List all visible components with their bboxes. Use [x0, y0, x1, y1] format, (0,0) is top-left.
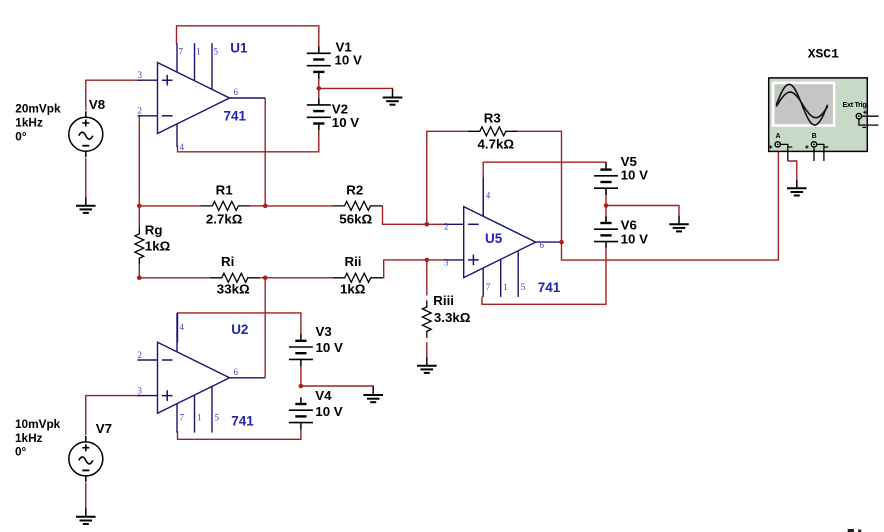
- svg-text:741: 741: [224, 108, 247, 123]
- wire U1 pin7 to V1 top: [177, 26, 319, 47]
- wire V7 to ground: [85, 483, 87, 510]
- svg-text:4.7kΩ: 4.7kΩ: [478, 137, 515, 152]
- svg-text:6: 6: [540, 240, 545, 250]
- svg-text:741: 741: [231, 414, 254, 429]
- svg-text:7: 7: [180, 413, 185, 423]
- U1 output stub: [230, 97, 266, 99]
- svg-text:5: 5: [215, 413, 220, 423]
- scope trace A: [776, 84, 827, 125]
- svg-text:33kΩ: 33kΩ: [217, 282, 250, 297]
- wire U5 output to scope A: [562, 147, 779, 260]
- wire mid node to ground: [606, 206, 679, 217]
- svg-text:U5: U5: [485, 231, 503, 246]
- wire V1 bottom to mid node: [318, 79, 320, 99]
- svg-text:Rii: Rii: [345, 254, 362, 269]
- svg-text:2: 2: [444, 222, 449, 232]
- ground below V8: [76, 197, 96, 213]
- battery V1 10V: [307, 47, 331, 79]
- wire V6 to U5 pin7: [482, 248, 606, 304]
- svg-text:U1: U1: [230, 41, 248, 56]
- wire Riii bottom to ground: [426, 342, 428, 357]
- node V5V6 mid dot: [604, 203, 609, 208]
- svg-text:0°: 0°: [15, 444, 27, 458]
- resistor Riii: [422, 300, 431, 338]
- svg-text:2.7kΩ: 2.7kΩ: [206, 211, 243, 226]
- svg-text:10 V: 10 V: [621, 167, 648, 182]
- svg-text:741: 741: [538, 280, 561, 295]
- wire V5 V6 mid node: [605, 188, 607, 222]
- scope A wire stubs: [781, 144, 788, 161]
- svg-text:1: 1: [503, 282, 508, 292]
- scope trace B: [776, 92, 827, 118]
- battery V6 10V: [594, 216, 618, 248]
- node V1V2 mid dot: [317, 86, 322, 91]
- wire U1 pin2 to Rg/R1 node: [139, 116, 141, 206]
- svg-text:5: 5: [521, 282, 526, 292]
- wire node A to R1: [139, 205, 200, 207]
- svg-text:2: 2: [138, 350, 143, 360]
- op-amp U1: [138, 43, 230, 147]
- resistor R1: [200, 201, 250, 210]
- ground scope A-: [787, 180, 807, 196]
- AC source V8 20mVpk: [69, 111, 103, 157]
- svg-text:Rg: Rg: [145, 222, 163, 237]
- svg-text:1: 1: [196, 47, 201, 57]
- resistor Rii: [333, 273, 383, 282]
- U5 output stub: [536, 241, 562, 243]
- svg-text:3: 3: [138, 386, 143, 396]
- svg-text:7: 7: [486, 282, 491, 292]
- wire Riii top: [426, 260, 428, 296]
- ground below Riii: [417, 357, 437, 373]
- U2 output stub: [230, 377, 266, 379]
- wire U2 pin4 stub vertical: [177, 313, 179, 343]
- resistor R3: [468, 127, 518, 136]
- svg-text:A: A: [775, 133, 780, 140]
- resistor Ri: [210, 273, 260, 282]
- svg-text:10 V: 10 V: [316, 340, 343, 355]
- node U5 output dot: [559, 240, 564, 245]
- svg-text:6: 6: [234, 367, 239, 377]
- battery V3 10V: [289, 334, 313, 366]
- ground V1V2 mid: [383, 89, 403, 105]
- wire V3 bottom to mid node: [300, 366, 302, 386]
- wire R3 left leg: [427, 131, 468, 224]
- scope ExtTrig +/- marks: [863, 111, 867, 115]
- wire node C to Ri: [139, 277, 210, 279]
- scope ExtTrig wire stubs: [859, 116, 879, 125]
- wire U2 pin4 to V3: [178, 313, 301, 334]
- svg-text:56kΩ: 56kΩ: [339, 211, 372, 226]
- resistor R2: [333, 201, 383, 210]
- scope B +/- marks: [805, 145, 809, 149]
- AC source V7 10mVpk: [69, 436, 103, 482]
- battery V4 10V: [289, 397, 313, 429]
- svg-text:1kHz: 1kHz: [15, 116, 43, 130]
- wire V7 to U2 pin3: [86, 396, 142, 435]
- svg-text:Riii: Riii: [433, 293, 454, 308]
- svg-text:R3: R3: [484, 111, 501, 126]
- wire Rii to U5 pin3 node: [383, 260, 445, 278]
- node U5 pin3 dot: [425, 258, 430, 263]
- wire V8 to U1 pin3: [86, 80, 142, 110]
- svg-text:1kΩ: 1kΩ: [340, 282, 366, 297]
- svg-text:3: 3: [444, 257, 449, 267]
- svg-text:B: B: [812, 133, 817, 140]
- wire R3 right leg to output: [518, 131, 562, 242]
- wire node D to Rii: [265, 277, 333, 279]
- op-amp U5: [444, 177, 536, 297]
- node V3V4 mid dot: [299, 384, 304, 389]
- wire V4 bottom to U2 pin7: [178, 429, 301, 439]
- svg-text:R2: R2: [346, 182, 363, 197]
- wire node B to R2: [265, 205, 332, 207]
- bottom-right partial text: [848, 529, 854, 532]
- svg-text:V6: V6: [621, 218, 637, 233]
- op-amp U2: [138, 313, 230, 433]
- svg-text:0°: 0°: [15, 129, 27, 143]
- ground V5V6 mid: [669, 216, 689, 232]
- svg-text:4: 4: [180, 322, 185, 332]
- scope A +/- marks: [769, 145, 773, 149]
- scope terminal Ext Trig: [856, 113, 863, 120]
- svg-text:10 V: 10 V: [335, 52, 362, 67]
- resistor Rg: [135, 227, 144, 264]
- svg-text:V3: V3: [316, 324, 332, 339]
- svg-text:5: 5: [214, 47, 219, 57]
- svg-text:10 V: 10 V: [621, 231, 648, 246]
- scope B wire stubs: [814, 144, 824, 161]
- wire U1 output down to node B: [264, 98, 266, 206]
- wire V8 to ground: [85, 158, 87, 199]
- svg-text:1kΩ: 1kΩ: [145, 238, 171, 253]
- wire V3V4 mid node to ground: [301, 386, 373, 387]
- wire R2 to U5 pin2 node: [383, 206, 445, 224]
- wire node A to Rg: [138, 206, 140, 228]
- node D dot (Ri/Rii/U2 out): [263, 276, 268, 281]
- battery V5 10V: [594, 163, 618, 195]
- svg-text:2: 2: [138, 106, 143, 116]
- svg-text:R1: R1: [216, 182, 234, 197]
- svg-text:U2: U2: [231, 322, 248, 337]
- scope terminal A: [774, 141, 781, 148]
- node C dot (Rg/Ri): [137, 276, 142, 281]
- svg-text:20mVpk: 20mVpk: [15, 102, 61, 116]
- svg-text:6: 6: [234, 87, 239, 97]
- wire Rg to node C: [138, 265, 140, 278]
- ground V3V4 mid: [363, 387, 383, 403]
- svg-text:3: 3: [138, 70, 143, 80]
- wire Ri to node D: [260, 277, 265, 279]
- svg-text:V8: V8: [89, 97, 105, 112]
- ground below V7: [76, 508, 96, 524]
- battery V2 10V: [307, 98, 331, 130]
- svg-text:XSC1: XSC1: [808, 47, 839, 62]
- wire V1V2 mid node to ground: [319, 88, 393, 89]
- svg-text:1: 1: [197, 413, 202, 423]
- node B dot (R1/R2/U1 out): [263, 204, 268, 209]
- svg-text:7: 7: [179, 47, 184, 57]
- svg-text:Ri: Ri: [221, 254, 234, 269]
- wire U5 pin4 stub vertical: [482, 180, 484, 216]
- svg-text:10 V: 10 V: [315, 404, 342, 419]
- wire V2 bottom to U1 pin4: [178, 130, 319, 152]
- svg-text:10 V: 10 V: [332, 115, 359, 130]
- svg-text:Ext Trig: Ext Trig: [843, 100, 867, 109]
- svg-text:V4: V4: [315, 388, 332, 403]
- svg-text:4: 4: [486, 191, 491, 201]
- svg-text:10mVpk: 10mVpk: [15, 417, 61, 431]
- wire U5 pin4 to V5: [483, 162, 606, 214]
- svg-text:3.3kΩ: 3.3kΩ: [434, 310, 471, 325]
- oscilloscope XSC1: [769, 78, 868, 151]
- node U5 pin2 dot: [425, 222, 430, 227]
- svg-text:V7: V7: [96, 421, 112, 436]
- wire R1 to node B: [250, 205, 265, 207]
- svg-text:4: 4: [180, 142, 185, 152]
- wire U2 output up to node D: [264, 278, 266, 378]
- svg-text:1kHz: 1kHz: [15, 431, 43, 445]
- node A dot (R1/Rg/U1 pin2): [137, 204, 142, 209]
- scope terminal B: [811, 141, 818, 148]
